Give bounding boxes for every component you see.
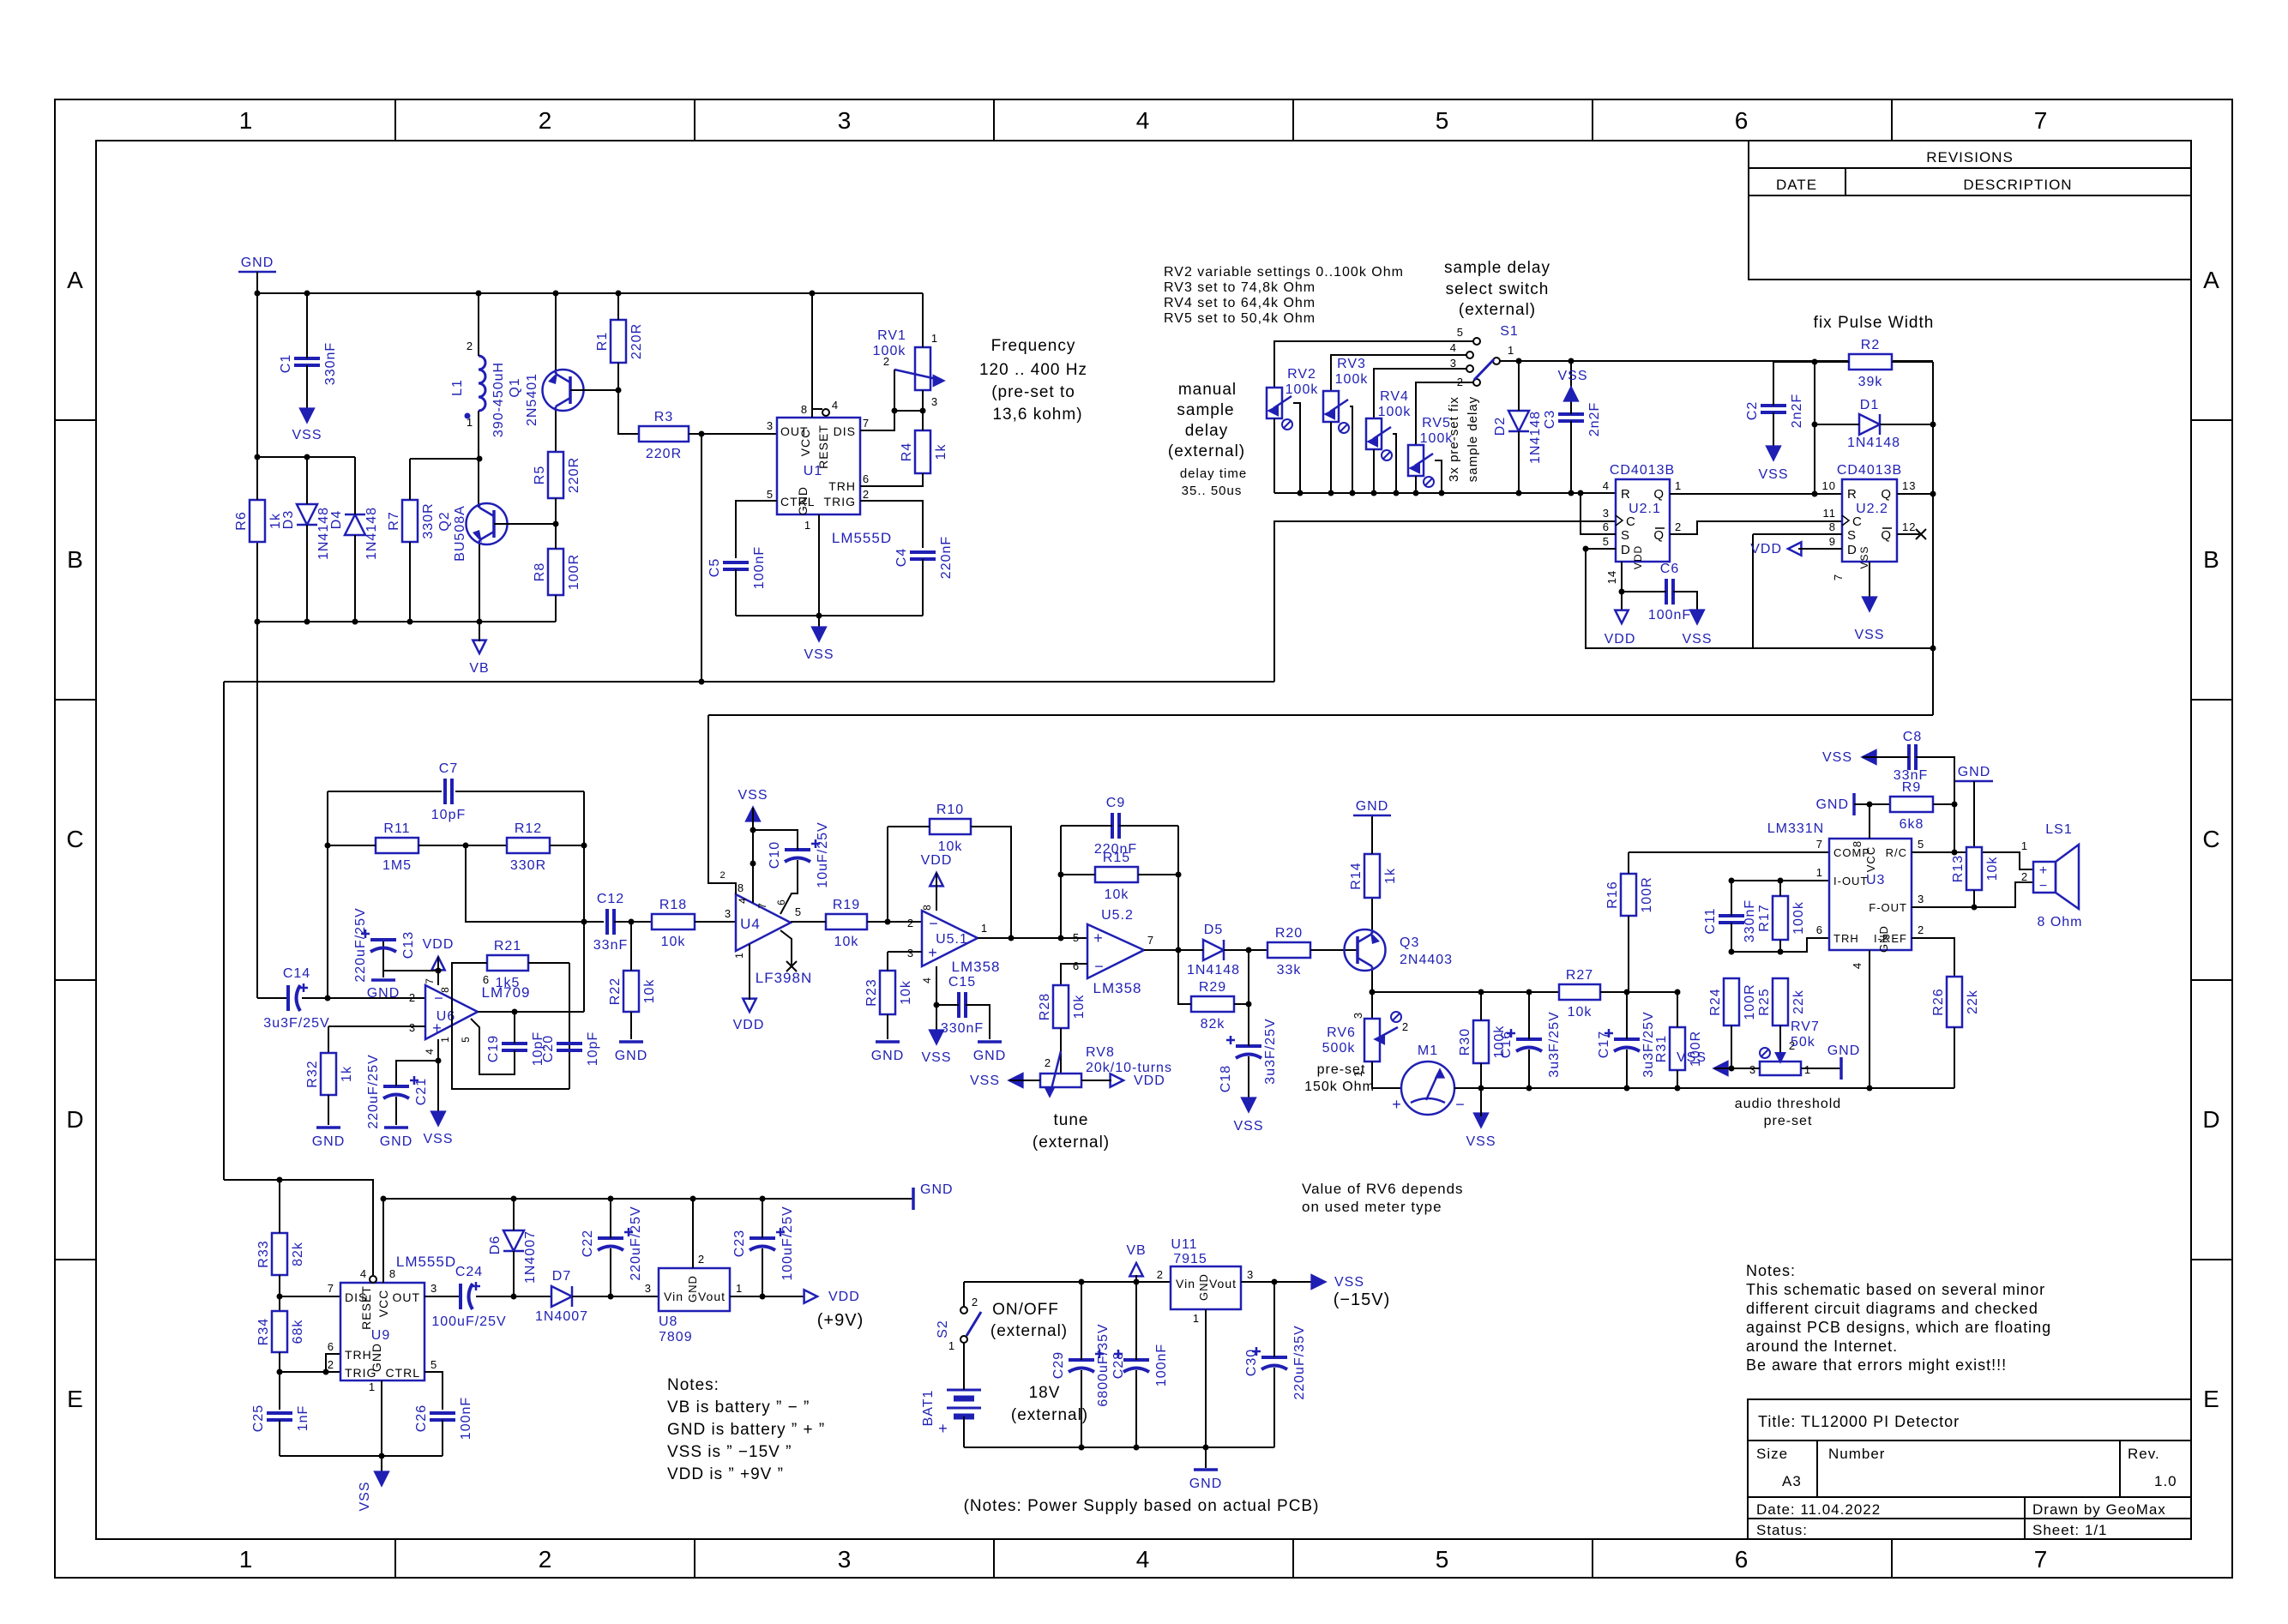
svg-text:5: 5 [431,1358,437,1371]
wire RV5 bottom [1415,476,1417,493]
wire R25 bottom [1779,1026,1781,1055]
wire C28 bottom [1135,1370,1137,1447]
svg-text:10k: 10k [1072,995,1087,1020]
svg-text:R11: R11 [383,821,410,836]
flip-flop U2.2 CD4013B [1822,463,1917,580]
svg-text:1N4148: 1N4148 [1187,963,1240,977]
svg-text:CTRL: CTRL [385,1366,420,1380]
svg-text:330nF: 330nF [323,342,338,385]
resistor R25 [1757,978,1806,1026]
svg-text:RV7: RV7 [1791,1020,1820,1034]
wire U4 vdd pin down [749,944,750,1000]
svg-text:VSS: VSS [1822,750,1852,765]
wire VSS stub rail [1480,1088,1482,1116]
junction C21 tap [436,1058,442,1064]
wire R8 bottom [555,595,557,622]
resistor R17 [1757,896,1806,940]
potentiometer RV8 [1040,1045,1172,1096]
svg-text:Title: TL12000 PI Detector: Title: TL12000 PI Detector [1758,1413,1960,1430]
wire gnd to R13 [1973,781,1975,847]
wire C10 top [753,830,798,850]
junction U2.2 Q [1930,491,1936,497]
svg-text:C6: C6 [1660,562,1679,576]
junction R10 left tap [885,919,891,925]
wire R31 bottom [1677,1070,1678,1088]
svg-text:C11: C11 [1703,907,1718,934]
wire U5.1 out [978,937,1087,939]
svg-text:6: 6 [1735,107,1749,134]
diode D4 [329,507,379,560]
svg-text:RV2: RV2 [1287,367,1316,382]
wire R2 right [1892,361,1933,363]
capacitor C23 [732,1206,795,1280]
svg-text:4: 4 [921,977,933,983]
svg-text:6: 6 [1603,520,1610,533]
wire C11 bottom [1731,923,1732,952]
svg-text:10k: 10k [899,980,913,1005]
wire S1 pin3 [1374,369,1466,418]
wire D4 bottom [354,535,356,622]
ground left of R9 [1815,793,1854,815]
resistor R7 [387,500,436,542]
svg-text:VSS: VSS [1858,545,1870,568]
wire R13 bottom [1973,890,1975,907]
wire R7 top [409,459,411,500]
wire U9 VCC pin8 [382,1199,384,1283]
capacitor C2 [1745,394,1804,428]
wire C1 top [306,293,308,358]
svg-text:R28: R28 [1038,993,1052,1020]
junction C16 top [1526,989,1532,995]
svg-text:68k: 68k [291,1320,305,1344]
svg-text:Q2: Q2 [437,511,452,531]
capacitor C24 [431,1265,506,1329]
svg-text:Size: Size [1756,1446,1788,1462]
svg-text:220uF/25V: 220uF/25V [366,1054,381,1128]
svg-text:TRH: TRH [1833,932,1859,945]
resistor R12 [507,821,550,873]
svg-text:R/C: R/C [1886,846,1907,859]
gnd rail U9 section [383,1198,913,1200]
wire S1 pin5 [1274,341,1473,388]
svg-text:I-OUT: I-OUT [1833,875,1868,887]
wire gnd to R9 [1854,803,1890,805]
svg-text:D5: D5 [1204,923,1223,937]
svg-text:39k: 39k [1858,375,1883,389]
svg-text:This schematic based on severa: This schematic based on several minor [1746,1281,2045,1298]
wire C30 bottom [1273,1368,1275,1447]
wire coil signal vertical [256,622,258,998]
svg-text:50k: 50k [1791,1035,1815,1050]
svg-text:GND: GND [615,1049,648,1063]
power VSS below meter rail [1466,1114,1496,1149]
svg-text:1: 1 [1193,1312,1200,1325]
svg-text:1: 1 [2021,839,2028,852]
resistor R11 [376,821,418,873]
svg-text:U9: U9 [371,1328,390,1343]
svg-text:6: 6 [863,472,870,485]
wire U2.2 D pin [1798,548,1842,550]
svg-text:2: 2 [409,991,416,1004]
wire C3 bottom [1570,421,1572,493]
wire U2.1 pin14 [1621,562,1623,611]
wire C20 vertical [569,963,570,1089]
wire L1 bottom [478,411,479,508]
svg-text:Vout: Vout [698,1290,726,1303]
svg-text:TRH: TRH [345,1348,372,1362]
battery BAT1 [921,1390,981,1437]
notes text block [1746,1262,2051,1374]
wire VB stub [479,622,480,641]
svg-text:Number: Number [1828,1446,1885,1462]
svg-text:8: 8 [801,403,808,416]
wire C6 left [1622,591,1666,592]
svg-text:CD4013B: CD4013B [1837,463,1902,478]
svg-text:−: − [1094,958,1105,975]
wire M1 to rail [1454,1087,1954,1089]
junctions diode link [255,454,310,460]
wire C12 right [614,921,652,923]
svg-text:4: 4 [1851,962,1864,969]
svg-text:+: + [2039,863,2048,878]
capacitor C21 [366,1054,429,1128]
svg-text:7: 7 [1147,934,1154,947]
wire R10 left [888,826,930,827]
svg-text:LM555D: LM555D [396,1254,456,1270]
power VDD below U2.1 [1605,611,1636,647]
svg-text:C: C [1852,514,1863,529]
capacitor C16 [1499,1011,1562,1077]
wire R8 top [555,524,557,549]
svg-text:VDD: VDD [423,937,455,952]
svg-text:R24: R24 [1708,988,1723,1015]
svg-text:1N4148: 1N4148 [1528,411,1543,464]
svg-text:C17: C17 [1597,1031,1611,1058]
svg-text:Notes:: Notes: [1746,1262,1796,1279]
power VDD below U4 [733,999,765,1032]
wire R6 top [256,457,258,500]
pin4 reset circle [812,409,829,416]
junction Q3 collector [1370,989,1376,995]
svg-text:330nF: 330nF [941,1021,984,1036]
svg-text:sample delay: sample delay [1466,396,1480,482]
svg-text:6800uF/35V: 6800uF/35V [1096,1323,1111,1406]
wire top rail [257,292,923,294]
svg-text:10pF: 10pF [431,808,466,822]
svg-text:C26: C26 [414,1404,429,1432]
wire U4 nc stub [780,930,792,965]
capacitor C17 [1597,1011,1656,1077]
wire C1 bottom [306,365,308,412]
wire U5.2 out [1144,949,1203,951]
svg-text:2: 2 [1918,923,1924,936]
svg-text:220uF/25V: 220uF/25V [629,1206,643,1280]
annotation psu note [964,1497,1320,1515]
wire R11 left [328,845,376,846]
wire fb right vertical [583,791,585,1012]
svg-text:Sheet: 1/1: Sheet: 1/1 [2032,1522,2108,1538]
wire Q1 base [570,389,618,391]
junctions trh [1729,949,1784,955]
svg-text:3: 3 [1352,1012,1364,1019]
svg-text:GND: GND [380,1134,413,1149]
junction loop right [1930,646,1936,652]
wire U1 VCC [811,293,813,418]
svg-text:C23: C23 [732,1230,747,1257]
svg-text:(external): (external) [1459,301,1536,319]
svg-text:C22: C22 [581,1230,595,1257]
annotation preset 150k [1304,1062,1375,1094]
wire D4 top [354,457,356,514]
capacitor C12 [593,892,628,953]
svg-text:5: 5 [1457,326,1464,339]
gnd flag above R13 [1955,765,1993,781]
svg-text:1k: 1k [1383,868,1398,884]
wire U9 OUT [424,1296,461,1297]
capacitor C19 [486,1032,545,1066]
svg-text:GND: GND [1189,1477,1223,1491]
wire R29 left [1178,950,1191,1004]
wire U4 pwr vertical [752,808,754,903]
resistor R31 [1654,1027,1703,1070]
svg-text:100R: 100R [1743,983,1757,1020]
no-connect U4 lower pin [786,961,797,971]
svg-text:pre-set: pre-set [1317,1062,1366,1077]
svg-text:3u3F/25V: 3u3F/25V [263,1016,329,1031]
wire S1 common [1500,360,1933,362]
svg-text:2: 2 [863,488,870,501]
resistor R22 [608,971,657,1012]
svg-text:VB: VB [1126,1243,1146,1258]
svg-text:5: 5 [1073,931,1080,944]
power VB below [469,641,489,676]
ground below C15 [973,1042,1007,1063]
power VSS below C2 [1758,447,1788,482]
svg-text:+: + [938,1420,948,1437]
svg-text:−: − [1455,1096,1466,1113]
svg-text:100k: 100k [1378,405,1412,419]
svg-text:VDD: VDD [1750,542,1782,556]
wire fix right vertical [1932,362,1934,715]
svg-text:8: 8 [738,881,744,894]
junction U1 gnd [816,613,822,619]
power VDD right of RV8 [1111,1074,1165,1088]
svg-text:100R: 100R [567,554,581,590]
wire R32 bottom [328,1095,329,1125]
svg-text:(external): (external) [1011,1406,1088,1424]
capacitor C20 [541,1032,600,1066]
svg-text:2: 2 [972,1296,978,1308]
junction C12 line [581,919,587,925]
wire U9 bottom loop [280,1455,443,1457]
wire C11 top [1731,881,1732,916]
svg-text:VSS: VSS [1557,369,1587,383]
capacitor C8 [1894,730,1928,783]
resistor R3 [639,410,689,461]
potentiometer RV3 [1323,357,1368,433]
capacitor C11 [1703,899,1757,942]
svg-text:+: + [1392,1096,1402,1113]
wire C25 bottom [279,1420,280,1456]
svg-text:C8: C8 [1903,730,1922,744]
svg-text:7915: 7915 [1173,1252,1207,1266]
svg-text:S: S [1621,528,1630,543]
wire RV3 wiper leg [1350,406,1352,493]
wire R18 to U4 [695,921,737,923]
svg-text:1: 1 [733,952,745,959]
svg-text:VDD: VDD [1632,545,1644,569]
junction C23 rail [760,1196,766,1202]
wire U6 pin7 up [437,957,439,985]
svg-text:against PCB designs, which are: against PCB designs, which are floating [1746,1319,2051,1336]
svg-text:7: 7 [1816,838,1823,851]
svg-text:3: 3 [725,907,732,920]
svg-text:GND: GND [973,1049,1007,1063]
svg-text:35.. 50us: 35.. 50us [1182,484,1243,498]
svg-text:1M5: 1M5 [382,858,412,873]
junctions D1 [1812,422,1936,428]
wire U2.1 Q to U2.2 R [1670,493,1842,495]
junction R12 right [581,843,587,849]
wire C15 left [936,1004,959,1006]
svg-text:R29: R29 [1199,980,1226,995]
svg-text:1N4148: 1N4148 [364,507,379,560]
svg-text:3: 3 [931,395,938,408]
svg-text:R15: R15 [1103,851,1130,865]
svg-text:R16: R16 [1605,881,1620,908]
svg-text:22k: 22k [1966,989,1980,1014]
svg-text:VSS: VSS [1466,1134,1496,1149]
wire R27 right [1600,991,1677,993]
svg-text:A: A [67,267,84,293]
diode D6 [488,1230,538,1284]
wire C5 bottom [735,569,737,616]
svg-text:B: B [67,546,84,573]
svg-text:6: 6 [1073,959,1080,972]
wire U5.1 pin8 [936,873,937,911]
diode D3 [281,504,331,560]
svg-text:22k: 22k [1791,989,1806,1014]
wire DIS link [280,1296,340,1297]
wire R16 top [1628,852,1629,874]
svg-text:100nF: 100nF [1648,608,1691,623]
svg-text:C9: C9 [1106,796,1125,810]
svg-text:6: 6 [328,1340,334,1353]
resistor R6 [234,500,283,542]
svg-text:82k: 82k [1201,1017,1225,1032]
svg-text:RV2 variable settings 0..100k: RV2 variable settings 0..100k Ohm [1164,265,1404,280]
svg-text:4: 4 [1450,341,1457,354]
wire Q1 collector up [555,293,557,370]
svg-text:7: 7 [2034,1546,2049,1573]
junction C14 node [325,995,331,1001]
wire C24 right [476,1296,551,1297]
svg-text:VSS: VSS [1854,628,1884,642]
potentiometer RV5 [1408,416,1453,487]
svg-text:5: 5 [1436,107,1450,134]
ic U3 LM331N [1767,821,1924,969]
wire U2.2 Qbar stub [1897,533,1919,535]
svg-text:6: 6 [1816,923,1823,936]
svg-text:R23: R23 [864,978,879,1006]
svg-text:LM331N: LM331N [1767,821,1824,836]
svg-text:delay: delay [1185,422,1228,440]
svg-text:5: 5 [460,1036,472,1043]
svg-text:U4: U4 [740,916,761,932]
wire U2.2 S down [1752,534,1754,648]
svg-text:4: 4 [360,1267,367,1280]
junction C22 bottom [608,1294,614,1300]
svg-text:manual: manual [1178,381,1237,399]
wire C18 top [1248,1004,1249,1046]
junction Q R2 node [1812,491,1818,497]
svg-text:10k: 10k [1568,1005,1593,1020]
svg-text:BU508A: BU508A [453,505,467,562]
svg-text:3: 3 [1247,1268,1254,1281]
wire R28 bottom [1060,1028,1062,1074]
svg-text:GND: GND [312,1134,346,1149]
svg-text:D4: D4 [329,510,344,529]
power VSS below U5.1 [921,1031,951,1065]
svg-text:5: 5 [795,905,802,918]
capacitor C6 [1648,562,1691,623]
svg-text:C4: C4 [894,548,909,567]
svg-text:Q: Q [1653,528,1665,543]
annotation frequency [979,337,1087,424]
svg-text:BAT1: BAT1 [921,1390,936,1427]
diode D7 [535,1269,588,1324]
wire Q1 emitter down [555,411,557,452]
wire VB stub psu [1135,1275,1137,1282]
svg-text:2: 2 [883,355,890,368]
power VSS left of RV7 [1677,1050,1727,1075]
potentiometer RV2 [1267,367,1318,430]
svg-text:C14: C14 [283,966,310,981]
wire RV1 bottom [922,390,924,411]
svg-text:GND: GND [920,1182,954,1197]
svg-text:VSS: VSS [1233,1119,1263,1134]
svg-text:F-OUT: F-OUT [1869,901,1907,914]
svg-text:33nF: 33nF [593,938,628,953]
svg-text:1N4007: 1N4007 [523,1230,538,1284]
ground below C21 [380,1128,413,1149]
svg-text:C: C [1626,514,1636,529]
junction R11 R12 [463,843,469,849]
capacitor C5 [707,546,767,589]
resistor R8 [533,549,581,595]
wire RV2 wiper leg [1293,403,1300,493]
junction D6 bottom [511,1294,517,1300]
ic U9 LM555D [328,1254,456,1393]
junctions R15 [1058,872,1182,878]
wire D6 top [513,1199,515,1230]
svg-text:VB: VB [469,661,489,676]
wire R15 right [1138,874,1178,875]
op-amp U4 LF398N sample-hold [720,870,812,986]
wire R5 bottom [555,498,557,524]
svg-text:VDD: VDD [921,853,953,868]
junction R22 tap [629,919,635,925]
capacitor C3 [1543,402,1602,436]
svg-text:7: 7 [863,417,870,430]
svg-text:5: 5 [1603,535,1610,548]
svg-text:D: D [1847,543,1857,557]
svg-text:8: 8 [1829,520,1836,533]
wire left rail down [256,293,258,622]
svg-text:2: 2 [2021,870,2028,883]
junction out C9 [1176,947,1182,953]
potentiometer RV1 [873,328,943,408]
